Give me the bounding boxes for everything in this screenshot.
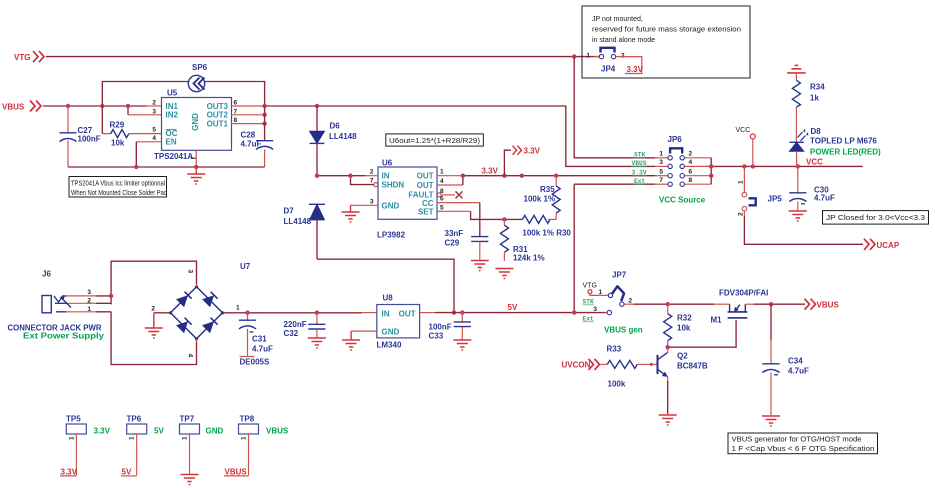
svg-text:STK: STK bbox=[634, 152, 646, 159]
svg-text:OUT1: OUT1 bbox=[207, 119, 229, 128]
svg-text:LP3982: LP3982 bbox=[377, 231, 406, 240]
svg-text:1: 1 bbox=[738, 180, 745, 184]
svg-text:JP7: JP7 bbox=[612, 271, 627, 280]
wire STK vertical bbox=[574, 57, 668, 158]
jumper JP5 bbox=[738, 166, 783, 216]
svg-text:3: 3 bbox=[370, 198, 374, 205]
transistor M1 MOSFET bbox=[711, 289, 769, 325]
IC U5 bbox=[152, 89, 237, 162]
jumper JP4 bbox=[586, 48, 625, 74]
fuse SP6 bbox=[188, 63, 207, 92]
svg-text:10k: 10k bbox=[677, 324, 691, 333]
wire 3.3V net bbox=[437, 167, 668, 186]
svg-text:UVCON: UVCON bbox=[562, 361, 591, 370]
svg-text:IN: IN bbox=[382, 310, 390, 319]
svg-text:124k 1%: 124k 1% bbox=[513, 254, 545, 263]
svg-text:Ext Power Supply: Ext Power Supply bbox=[23, 332, 105, 341]
svg-text:R32: R32 bbox=[677, 314, 692, 323]
svg-text:2: 2 bbox=[370, 169, 374, 176]
svg-text:IN: IN bbox=[382, 172, 390, 181]
svg-text:VBUS: VBUS bbox=[817, 301, 840, 310]
node 3.3V at JP4 bbox=[616, 57, 644, 74]
svg-text:TPS2041A: TPS2041A bbox=[154, 152, 193, 161]
resistor R35 bbox=[524, 176, 561, 220]
svg-text:1 F <Cap Vbus < 6 F OTG Spec: 1 F <Cap Vbus < 6 F OTG Specification bbox=[732, 446, 875, 453]
svg-text:4.7uF: 4.7uF bbox=[788, 367, 809, 376]
svg-text:5: 5 bbox=[440, 204, 444, 211]
svg-text:JP not mounted,: JP not mounted, bbox=[592, 16, 643, 23]
svg-text:3: 3 bbox=[659, 159, 663, 166]
ground C30 bbox=[789, 211, 807, 221]
svg-text:7: 7 bbox=[659, 177, 663, 184]
svg-text:5V: 5V bbox=[154, 427, 164, 436]
svg-text:1k: 1k bbox=[810, 94, 819, 103]
svg-text:VCC: VCC bbox=[806, 158, 823, 167]
svg-text:3: 3 bbox=[187, 270, 194, 274]
svg-text:GND: GND bbox=[206, 427, 224, 436]
resistor R29 bbox=[102, 121, 161, 148]
diode D6 bbox=[310, 106, 358, 176]
svg-text:VBUS generator for OTG/HOST mo: VBUS generator for OTG/HOST mode bbox=[732, 437, 862, 444]
svg-text:TP7: TP7 bbox=[180, 415, 195, 424]
IC U8 bbox=[377, 294, 420, 350]
testpoint TP8 bbox=[224, 415, 289, 477]
svg-text:R34: R34 bbox=[810, 83, 825, 92]
connector J6 bbox=[8, 270, 105, 341]
svg-text:3.3V: 3.3V bbox=[524, 147, 541, 156]
svg-text:C28: C28 bbox=[241, 131, 256, 140]
ground U7 bridge bbox=[145, 313, 171, 338]
wire 5V net bbox=[420, 303, 607, 315]
svg-text:LL4148: LL4148 bbox=[284, 217, 312, 226]
svg-text:3: 3 bbox=[152, 108, 156, 115]
svg-text:C31: C31 bbox=[252, 335, 267, 344]
note VBUS generator bbox=[728, 433, 878, 454]
svg-text:R29: R29 bbox=[110, 121, 125, 130]
svg-text:OUT2: OUT2 bbox=[207, 111, 229, 120]
svg-text:SHDN: SHDN bbox=[382, 181, 405, 190]
svg-text:3.3V: 3.3V bbox=[627, 65, 644, 74]
rectifier U7 bbox=[151, 262, 250, 358]
svg-text:EN: EN bbox=[166, 138, 177, 147]
resistor R34 bbox=[792, 80, 825, 142]
svg-text:4.7uF: 4.7uF bbox=[814, 194, 835, 203]
svg-text:Ext: Ext bbox=[583, 316, 595, 323]
node UVCON bbox=[562, 359, 600, 370]
svg-text:1: 1 bbox=[241, 436, 248, 440]
svg-text:1: 1 bbox=[69, 436, 76, 440]
note U6out formula bbox=[386, 134, 484, 146]
svg-text:BC847B: BC847B bbox=[677, 362, 708, 371]
svg-text:1: 1 bbox=[440, 169, 444, 176]
svg-text:100k 1%: 100k 1% bbox=[524, 194, 556, 203]
power supply bar above R34 bbox=[787, 65, 805, 80]
capacitor C27 bbox=[60, 106, 101, 167]
svg-text:JP6: JP6 bbox=[668, 135, 683, 144]
power VTG at JP7 bbox=[583, 283, 609, 296]
LED D8 bbox=[790, 127, 882, 166]
svg-text:C34: C34 bbox=[788, 357, 803, 366]
svg-text:U6out=1.25*(1+R28/R29): U6out=1.25*(1+R28/R29) bbox=[389, 138, 480, 145]
svg-text:3: 3 bbox=[593, 306, 597, 313]
wire JP6 to VCC rail bbox=[684, 158, 862, 184]
node VBUS bbox=[2, 101, 41, 112]
svg-text:JP5: JP5 bbox=[768, 195, 783, 204]
wire JP7 pin2 to M1 bbox=[624, 302, 730, 306]
svg-text:1: 1 bbox=[599, 289, 603, 296]
node VBUS right bbox=[805, 299, 840, 310]
svg-text:100k: 100k bbox=[608, 380, 626, 389]
svg-text:100nF: 100nF bbox=[78, 135, 101, 144]
testpoint TP6 bbox=[121, 415, 164, 477]
svg-text:GND: GND bbox=[382, 201, 400, 210]
svg-text:C32: C32 bbox=[284, 329, 299, 338]
wire SET net bbox=[437, 211, 522, 221]
capacitor C33 bbox=[429, 313, 471, 341]
svg-text:IN2: IN2 bbox=[166, 111, 179, 120]
svg-text:U7: U7 bbox=[240, 262, 251, 271]
testpoint TP7 bbox=[180, 415, 224, 475]
svg-text:OUT: OUT bbox=[417, 172, 434, 181]
capacitor C31 bbox=[239, 313, 273, 357]
svg-text:R35: R35 bbox=[540, 185, 555, 194]
svg-text:1: 1 bbox=[129, 436, 136, 440]
wire VBUS net bbox=[43, 104, 162, 115]
svg-text:SP6: SP6 bbox=[192, 63, 208, 72]
wire U5 ground rail bbox=[68, 142, 265, 169]
svg-text:VTG: VTG bbox=[14, 53, 30, 62]
node UCAP bbox=[864, 239, 900, 250]
ground Q2 bbox=[659, 415, 677, 425]
svg-text:TPS2041A Vbus Icc limiter opti: TPS2041A Vbus Icc limiter optionnal bbox=[71, 181, 165, 188]
resistor R33 bbox=[601, 345, 653, 389]
wire UCAP bbox=[744, 211, 863, 244]
svg-text:10k: 10k bbox=[111, 139, 125, 148]
svg-text:1: 1 bbox=[659, 150, 663, 157]
svg-text:DE005S: DE005S bbox=[240, 358, 270, 367]
svg-text:TOPLED LP M676: TOPLED LP M676 bbox=[810, 137, 877, 146]
svg-text:VBUS: VBUS bbox=[2, 103, 25, 112]
svg-text:4: 4 bbox=[187, 354, 194, 358]
power VCC bbox=[736, 127, 756, 166]
svg-text:in stand alone mode: in stand alone mode bbox=[592, 37, 655, 44]
svg-text:STK: STK bbox=[583, 299, 595, 306]
resistor R31 bbox=[500, 219, 544, 262]
svg-text:5: 5 bbox=[659, 168, 663, 175]
svg-text:reserved for future mass stora: reserved for future mass storage extensi… bbox=[592, 27, 741, 34]
svg-text:VBUS gen: VBUS gen bbox=[604, 326, 643, 335]
capacitor C34 bbox=[762, 304, 809, 415]
svg-text:4: 4 bbox=[440, 178, 444, 185]
wire U6 IN SHDN bbox=[315, 174, 378, 185]
label DE005S U7 value bbox=[240, 358, 270, 367]
transistor Q2 bbox=[651, 347, 708, 414]
svg-text:1: 1 bbox=[236, 305, 240, 312]
note TPS2041A bbox=[69, 177, 167, 198]
svg-text:C33: C33 bbox=[429, 332, 444, 341]
svg-text:3.3V: 3.3V bbox=[94, 427, 111, 436]
ground C33 bbox=[453, 340, 471, 350]
svg-text:OUT3: OUT3 bbox=[207, 102, 229, 111]
capacitor C29 bbox=[437, 203, 488, 260]
ground TP7 bbox=[181, 475, 199, 485]
svg-text:6: 6 bbox=[689, 168, 693, 175]
svg-text:U5: U5 bbox=[167, 89, 178, 98]
svg-text:VCC: VCC bbox=[736, 127, 751, 134]
testpoint TP5 bbox=[60, 415, 111, 477]
svg-text:33nF: 33nF bbox=[445, 229, 464, 238]
resistor R32 bbox=[664, 304, 693, 347]
svg-text:D7: D7 bbox=[284, 207, 295, 216]
svg-text:5: 5 bbox=[152, 127, 156, 134]
svg-text:SET: SET bbox=[418, 207, 434, 216]
svg-text:FDV304P/FAI: FDV304P/FAI bbox=[719, 289, 768, 298]
resistor R30 bbox=[522, 215, 571, 237]
ground C32 bbox=[308, 338, 326, 348]
svg-text:OUT: OUT bbox=[417, 181, 434, 190]
svg-text:TP5: TP5 bbox=[66, 415, 81, 424]
connector JP6 bbox=[632, 135, 693, 186]
svg-text:POWER LED(RED): POWER LED(RED) bbox=[810, 148, 881, 157]
svg-text:4.7uF: 4.7uF bbox=[241, 140, 262, 149]
svg-text:2: 2 bbox=[152, 100, 156, 107]
wire SP6 bypass loop bbox=[102, 82, 264, 134]
svg-text:U8: U8 bbox=[383, 294, 394, 303]
svg-text:2: 2 bbox=[629, 298, 633, 305]
svg-text:VBUS: VBUS bbox=[632, 160, 647, 167]
no-connect FAULT bbox=[441, 191, 462, 198]
svg-text:220nF: 220nF bbox=[284, 320, 307, 329]
svg-text:3.3V: 3.3V bbox=[61, 468, 78, 477]
svg-text:GND: GND bbox=[191, 113, 200, 131]
label VCC Source bbox=[659, 196, 706, 205]
diode D7 bbox=[284, 204, 326, 259]
svg-text:OUT: OUT bbox=[399, 310, 416, 319]
svg-text:5V: 5V bbox=[122, 468, 132, 477]
svg-text:Q2: Q2 bbox=[677, 352, 688, 361]
IC U6 bbox=[370, 159, 444, 240]
svg-text:4: 4 bbox=[689, 159, 693, 166]
svg-text:100nF: 100nF bbox=[429, 323, 452, 332]
wire VTG to JP4 bbox=[46, 54, 599, 58]
svg-text:D6: D6 bbox=[330, 122, 341, 131]
label VBUS gen bbox=[604, 326, 643, 335]
ground U6 bbox=[342, 205, 379, 222]
node VCC label bbox=[806, 158, 823, 167]
svg-text:When Not Mounted Close Solder: When Not Mounted Close Solder Pad bbox=[71, 190, 167, 197]
svg-text:JP Closed for 3.0<Vcc<3.3: JP Closed for 3.0<Vcc<3.3 bbox=[826, 215, 925, 222]
svg-text:1: 1 bbox=[586, 53, 590, 60]
svg-text:VBUS: VBUS bbox=[266, 427, 289, 436]
ground U5 bbox=[187, 167, 205, 184]
svg-text:VCC Source: VCC Source bbox=[659, 196, 706, 205]
svg-text:Ext: Ext bbox=[634, 178, 646, 185]
svg-text:LL4148: LL4148 bbox=[329, 132, 357, 141]
svg-text:GND: GND bbox=[382, 328, 400, 337]
note JP4 box bbox=[582, 6, 750, 78]
ground R31 bbox=[495, 269, 513, 279]
svg-text:4.7uF: 4.7uF bbox=[252, 345, 273, 354]
wire VBUS out net bbox=[754, 302, 805, 306]
ground C34 bbox=[762, 416, 780, 426]
svg-text:JP4: JP4 bbox=[601, 65, 616, 74]
svg-text:R33: R33 bbox=[607, 345, 622, 354]
svg-text:LM340: LM340 bbox=[377, 341, 402, 350]
svg-text:4: 4 bbox=[152, 135, 156, 142]
svg-text:TP8: TP8 bbox=[240, 415, 255, 424]
svg-text:1: 1 bbox=[182, 436, 189, 440]
capacitor C28 bbox=[241, 106, 274, 167]
capacitor C32 bbox=[284, 313, 326, 338]
svg-text:J6: J6 bbox=[42, 270, 51, 279]
svg-text:7: 7 bbox=[370, 178, 374, 185]
note JP closed bbox=[823, 211, 929, 225]
svg-text:5V: 5V bbox=[508, 303, 518, 312]
wire unregulated net bbox=[223, 311, 377, 315]
svg-text:IN1: IN1 bbox=[166, 102, 179, 111]
svg-text:VTG: VTG bbox=[583, 283, 597, 290]
svg-text:8: 8 bbox=[689, 177, 693, 184]
svg-text:U6: U6 bbox=[382, 159, 393, 168]
node 3.3V flag bbox=[504, 146, 540, 176]
svg-text:UCAP: UCAP bbox=[877, 241, 900, 250]
wire U5 outputs to rail bbox=[232, 104, 668, 167]
wire Ext vertical bbox=[574, 184, 668, 312]
svg-text:TP6: TP6 bbox=[127, 415, 142, 424]
svg-text:3: 3 bbox=[87, 289, 91, 296]
wire J6 loop bbox=[96, 261, 197, 364]
wire D7 to 5V net bbox=[317, 259, 456, 315]
svg-text:D8: D8 bbox=[811, 127, 822, 136]
jumper JP7 bbox=[583, 271, 633, 323]
svg-text:M1: M1 bbox=[711, 316, 723, 325]
ground C29 bbox=[471, 261, 489, 271]
svg-text:3.3V: 3.3V bbox=[632, 169, 647, 176]
svg-text:VBUS: VBUS bbox=[225, 468, 248, 477]
capacitor C30 bbox=[789, 166, 835, 210]
ground U8 bbox=[342, 331, 377, 350]
svg-text:100k 1% R30: 100k 1% R30 bbox=[522, 229, 571, 238]
svg-text:C29: C29 bbox=[445, 239, 460, 248]
wire gate net bbox=[666, 320, 737, 349]
svg-text:2: 2 bbox=[689, 150, 693, 157]
svg-text:2: 2 bbox=[738, 212, 745, 216]
svg-text:2: 2 bbox=[151, 306, 155, 313]
svg-text:3.3V: 3.3V bbox=[482, 167, 499, 176]
node VTG bbox=[14, 51, 44, 62]
